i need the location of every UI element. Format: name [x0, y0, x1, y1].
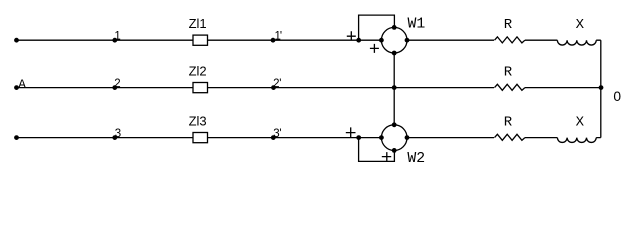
svg-text:Zl3: Zl3	[189, 113, 207, 128]
wire W2 voltage loop	[359, 138, 395, 162]
svg-text:W1: W1	[408, 17, 426, 33]
wire phase 1	[16, 39, 494, 41]
node A dot	[14, 85, 19, 90]
plus mark W2 coil	[382, 152, 391, 161]
node 1' dot	[271, 38, 276, 43]
W1 top terminal dot	[392, 25, 397, 30]
inductor X phase 3	[557, 138, 596, 143]
W2 left terminal dot	[379, 135, 384, 140]
wire phase 3	[16, 137, 494, 139]
wattmeter W2 circle	[381, 125, 407, 151]
svg-text:': '	[279, 128, 281, 140]
svg-text:0: 0	[613, 89, 621, 104]
node 2' dot	[271, 85, 276, 90]
W1 right terminal dot	[405, 38, 410, 43]
svg-text:3: 3	[115, 128, 121, 140]
resistor R phase 1	[495, 37, 525, 43]
impedance Zl1 box	[193, 35, 208, 45]
svg-text:Zl2: Zl2	[189, 63, 207, 78]
wire phase 2	[16, 87, 600, 89]
plus mark W2 line	[346, 127, 356, 137]
svg-text:W2: W2	[407, 151, 425, 167]
node 3 dot	[112, 135, 117, 140]
svg-text:A: A	[18, 77, 26, 92]
junction dot W2 tap	[356, 135, 361, 140]
W2 bottom terminal dot	[392, 148, 397, 153]
node 1 dot	[112, 38, 117, 43]
svg-text:R: R	[504, 17, 513, 33]
wire phase 1 after resistor	[525, 39, 601, 41]
svg-text:1: 1	[114, 30, 120, 42]
svg-text:X: X	[576, 115, 585, 131]
svg-text:2: 2	[114, 78, 120, 90]
wire neutral vertical W1-W2	[393, 53, 395, 125]
svg-text:': '	[279, 78, 281, 90]
W2 top terminal dot	[392, 122, 397, 127]
wire W1 voltage loop	[359, 15, 395, 40]
junction dot neutral-phase2	[392, 85, 397, 90]
resistor R phase 3	[495, 134, 525, 140]
svg-text:R: R	[504, 64, 513, 80]
resistor R phase 2	[495, 84, 525, 90]
plus mark W1 coil	[370, 44, 379, 53]
impedance Zl3 box	[193, 133, 208, 143]
svg-text:': '	[280, 30, 282, 42]
impedance Zl2 box	[193, 83, 208, 93]
svg-text:X: X	[576, 17, 585, 33]
node 2 dot	[112, 85, 117, 90]
plus mark W1 line	[347, 31, 356, 40]
svg-text:R: R	[504, 114, 513, 130]
svg-text:Zl1: Zl1	[189, 16, 207, 31]
W1 bottom terminal dot	[392, 51, 397, 56]
W2 right terminal dot	[405, 135, 410, 140]
junction dot W1 tap	[356, 38, 361, 43]
node dot line1 left	[14, 38, 19, 43]
wattmeter W1 circle	[381, 27, 407, 53]
wire right bus vertical	[600, 40, 602, 137]
node 0 dot	[599, 85, 604, 90]
node dot line3 left	[14, 135, 19, 140]
node 3' dot	[271, 135, 276, 140]
W1 left terminal dot	[379, 38, 384, 43]
inductor X phase 1	[557, 40, 596, 45]
wire phase 3 after resistor	[525, 137, 601, 139]
